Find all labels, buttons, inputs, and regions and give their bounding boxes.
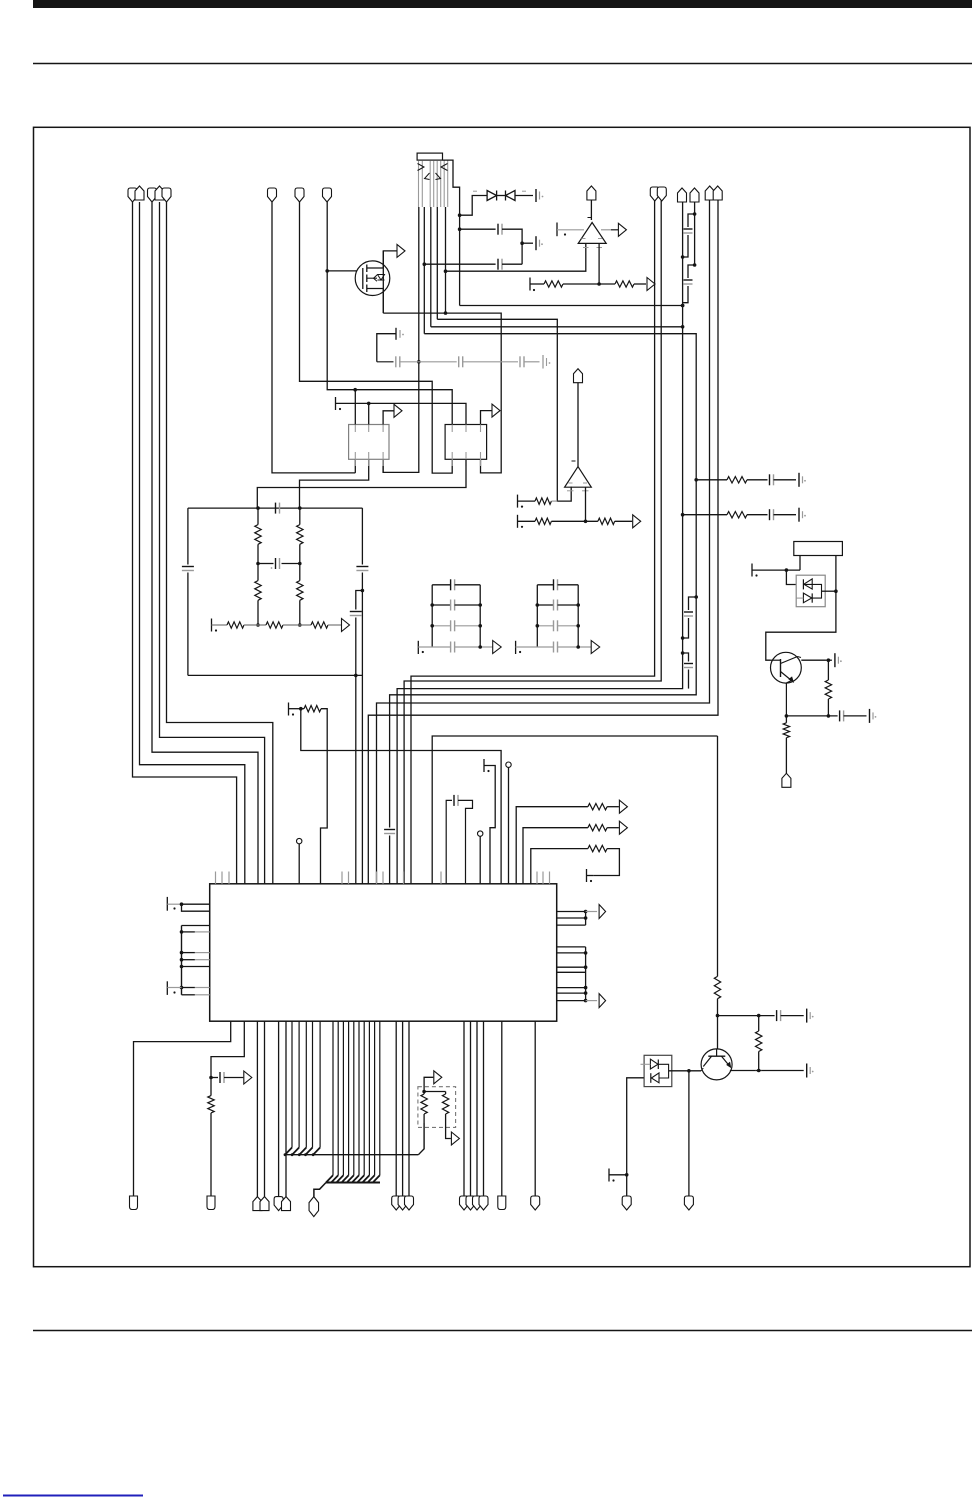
connector J1 pin b — [135, 186, 144, 200]
twin-T right branch with capacitor C10 — [361, 508, 363, 564]
T1 arrow marks — [425, 173, 430, 180]
B1 bottom pin 3 — [382, 459, 384, 472]
wire — [167, 903, 181, 905]
stub row wire to B2 pin2 top — [336, 403, 467, 424]
opto U3 box — [796, 575, 825, 607]
capacitor C7 — [519, 356, 521, 367]
cap row wire — [377, 361, 394, 363]
wire from R10 node down and right — [301, 709, 501, 884]
connector J15 pair — [274, 1197, 283, 1211]
connector J16 — [309, 1197, 319, 1217]
IC U4 — [210, 884, 557, 1021]
capacitor C5 — [395, 356, 397, 367]
U1 input marks — [582, 238, 586, 240]
wire to arrow — [615, 520, 633, 522]
resistor R8 — [266, 622, 283, 628]
U2 inverting wire — [585, 487, 587, 521]
data bus 1 with slant joins — [291, 1021, 293, 1147]
capacitor C19 — [839, 710, 841, 721]
wire pins to connector pair1 — [256, 1021, 258, 1196]
U5 inner bracket — [658, 1064, 668, 1078]
U3 gray lead — [797, 597, 804, 599]
wire to connector J19 — [501, 1021, 503, 1196]
wire — [283, 624, 311, 626]
resistor R13 — [535, 498, 551, 504]
wire — [508, 767, 510, 884]
RC chain row2 resistor R12 — [683, 514, 727, 516]
data bus 2 with slant joins — [332, 1021, 334, 1175]
B1 top pin 3 to arrow — [383, 411, 393, 425]
resistor R25 — [758, 1016, 760, 1031]
bus row3 wire to opamp U2 input — [437, 319, 571, 501]
capacitor CB4 bottom row — [516, 646, 554, 648]
opto U5 box — [644, 1055, 672, 1086]
connector T1 label box — [417, 153, 442, 160]
K1 left pin — [799, 556, 801, 571]
no-connect — [297, 838, 302, 843]
wire — [497, 195, 506, 197]
U5 input wire — [627, 1078, 644, 1196]
wire T1 right jog down — [443, 160, 460, 305]
footer link underline — [3, 1495, 143, 1497]
wire — [298, 844, 300, 884]
bus1 riser to dashed block — [418, 1123, 424, 1155]
twin-T top wire — [188, 507, 363, 509]
connector J21 — [684, 1196, 693, 1210]
cap jog C14 — [688, 265, 695, 278]
capacitor CB1 — [537, 584, 553, 586]
U1 inverting input wire — [598, 243, 600, 284]
ground — [806, 1009, 808, 1023]
bus row2 wire mosfet source to filter box B2 pin3 — [383, 313, 501, 473]
junction — [325, 269, 329, 273]
wire from J1e — [167, 202, 273, 884]
no-connect — [478, 831, 483, 836]
Q1 body diode — [378, 275, 385, 281]
connector J6 double — [650, 187, 659, 201]
wire row to R20 — [531, 849, 588, 884]
T1 hook mark left — [418, 164, 425, 171]
wire — [718, 1015, 775, 1017]
wire — [563, 283, 615, 285]
U3 inner bracket — [804, 584, 822, 598]
connector J3 — [295, 188, 304, 202]
wire down to IC from twin-T — [355, 675, 357, 884]
junction — [458, 213, 462, 217]
supply stub — [608, 1169, 610, 1182]
wire row C3 — [424, 263, 495, 265]
capacitor C8 — [275, 503, 277, 514]
resistor R16 — [827, 660, 829, 680]
wire — [786, 715, 837, 717]
wire to connector — [210, 1113, 212, 1196]
U5 output wire to Q3 — [669, 1070, 702, 1072]
wire IC pin to left connector — [134, 1021, 231, 1196]
wire — [400, 361, 457, 363]
supply stub left 2 — [166, 981, 168, 995]
op-amp U2 — [565, 467, 592, 488]
capacitor C3 — [497, 259, 499, 270]
supply stub — [586, 869, 588, 882]
resistor R1 — [544, 281, 563, 287]
capacitor CA3 — [432, 625, 450, 627]
wire J6a down — [411, 200, 655, 884]
bottom rail stub CB — [515, 641, 517, 654]
wire to opto U3 — [786, 570, 796, 584]
wire to arrow — [634, 283, 646, 285]
wire T1-5 down to bus row2 — [445, 207, 447, 313]
connector J1 pin a — [128, 188, 137, 202]
filter box B2 — [445, 425, 487, 460]
wire stub to K1 pin — [752, 569, 800, 571]
arrow out CB — [591, 641, 600, 654]
twin-T branch B resistor R6 — [299, 564, 301, 581]
T1 pin shield 3 — [436, 161, 438, 208]
capacitor C22 — [776, 1010, 778, 1021]
wire to arrow — [607, 827, 619, 829]
wire to arrow above — [424, 1077, 433, 1091]
supply stub — [288, 703, 290, 716]
resistor R21 — [208, 1096, 214, 1113]
wire below to arrow — [446, 1114, 451, 1139]
supply stub — [483, 759, 485, 772]
K1 right pin wire — [766, 556, 836, 661]
U5 diode 2 — [651, 1073, 659, 1083]
wire J8 down — [694, 202, 696, 265]
wire from J3 to filter box B2 pin1 bottom — [300, 202, 453, 473]
wire stub jog to IC — [484, 766, 495, 885]
cap ladder block CB rails — [536, 585, 538, 647]
wire — [479, 836, 481, 884]
connector J19 — [498, 1196, 506, 1210]
capacitor C17 — [769, 474, 771, 485]
cap jog C16 — [683, 653, 689, 662]
twin-T mid capacitor C12 — [258, 563, 274, 565]
wire to opamp U1 input — [446, 243, 586, 271]
Q1 right chord wire — [382, 251, 384, 313]
resistor R9 — [311, 622, 328, 628]
Q1 drain wire to arrow — [383, 251, 396, 268]
transistor Q2 — [771, 652, 802, 683]
capacitor C21 — [211, 1077, 218, 1079]
resistor R15 — [598, 518, 615, 524]
diode D1 — [487, 191, 497, 201]
supply stub — [517, 515, 519, 528]
pins — [182, 925, 210, 927]
capacitor C6 — [458, 356, 460, 367]
U5 gray lead — [641, 1063, 651, 1065]
connector J1 pin d — [155, 186, 164, 200]
T1 pin shield 4 — [443, 161, 445, 208]
U3 output wire — [822, 590, 836, 592]
supply stub row y403.4 — [335, 397, 337, 410]
wire — [524, 361, 540, 363]
ground — [869, 709, 871, 723]
connector J1 pin c — [148, 188, 157, 202]
IC right pins group1 — [557, 911, 586, 913]
arrow out CA — [493, 641, 502, 654]
U2 label tick — [572, 460, 576, 462]
wire J6b down — [404, 200, 661, 884]
capacitor CB2 — [537, 604, 553, 606]
wire from J4 to filter box B2 pin1 top — [327, 202, 452, 425]
B2 box gray pin stubs — [451, 425, 453, 433]
wire riser resistor R24 — [717, 736, 719, 976]
wire T1-4 down to bus row3 — [436, 207, 438, 319]
wire from J1d — [160, 202, 265, 884]
connector J18 quad — [460, 1196, 469, 1210]
mosfet Q1 — [355, 261, 390, 296]
Q2 emitter wire — [786, 681, 791, 716]
wire — [244, 624, 266, 626]
bus row4 wire — [431, 326, 683, 328]
T1 pin shield 2 — [429, 161, 431, 208]
wire trio to connectors — [395, 1021, 397, 1196]
relay K1 label box — [794, 542, 843, 556]
connector J4 — [323, 188, 332, 202]
wire — [389, 836, 391, 885]
op-amp U1 — [578, 223, 606, 244]
wire h736 corner to Q3 branch — [432, 736, 717, 884]
wire J9b down — [368, 200, 718, 884]
wire T1-2 down to bus row5 — [423, 207, 425, 334]
junction — [444, 269, 448, 273]
connector J5 above U1 — [587, 186, 596, 200]
resistor R18 — [588, 804, 607, 810]
RC chain row1 resistor R11 — [696, 479, 727, 481]
B2 top pin 3 to arrow — [481, 411, 492, 425]
supply stub left 1 — [166, 897, 168, 911]
resistor R19 — [588, 825, 607, 831]
wire quad to connectors — [463, 1021, 465, 1196]
mosfet gate wire — [327, 270, 356, 272]
wire to arrow — [328, 624, 341, 626]
resistor R10 — [304, 706, 321, 712]
capacitor C4 polarized — [395, 328, 397, 340]
U3 diode 2 — [803, 593, 811, 603]
wire from J1b — [140, 202, 245, 884]
twin-T bottom wire — [188, 674, 363, 676]
connector J9 double — [705, 186, 714, 200]
no-connect — [506, 762, 511, 767]
capacitor CB3 — [537, 625, 553, 627]
capacitor CA4 bottom row — [418, 646, 450, 648]
dashed block with resistors — [418, 1087, 456, 1128]
capacitor C23 on riser — [384, 829, 395, 831]
wire row to R18 — [516, 807, 588, 884]
cap jog C13 — [688, 214, 695, 227]
resistor R7 — [227, 622, 244, 628]
schematic frame — [34, 127, 971, 1266]
capacitor C20 bracket — [446, 800, 452, 884]
twin-T branch A resistor R4 — [257, 564, 259, 581]
connector J22 — [622, 1196, 631, 1210]
left pin bracket — [181, 926, 183, 995]
U2 input marks — [569, 482, 573, 484]
U1 minus label — [588, 217, 592, 219]
supply stub — [751, 564, 753, 577]
resistor R22 — [423, 1092, 425, 1095]
wire — [463, 361, 518, 363]
ground — [806, 1064, 808, 1078]
B2 bottom pin 2 to twin-T branch A — [257, 459, 466, 507]
rail bar — [542, 355, 544, 369]
wire — [530, 283, 544, 285]
resistor R14 — [535, 518, 551, 524]
B1 bottom pin 1 — [354, 459, 356, 473]
connector J7 — [678, 188, 687, 202]
Q3 emitter wire — [730, 1070, 756, 1072]
header rule — [33, 63, 972, 65]
page header black bar — [33, 0, 972, 8]
Q2 collector wire — [798, 657, 802, 658]
U1 right lead to arrow — [601, 229, 611, 231]
ground — [522, 242, 533, 244]
wire — [502, 263, 522, 265]
resistor R2 — [615, 281, 634, 287]
connector J20 — [531, 1196, 540, 1210]
wire IC pin down with jog and cap tap — [211, 1021, 244, 1095]
junction — [423, 262, 427, 266]
Q1 source wire to bus row2 — [382, 289, 384, 314]
U5 diode 1 — [650, 1059, 658, 1069]
wire loop to stub — [593, 849, 619, 876]
cap ladder block CA rails — [431, 585, 433, 647]
bus row1 wire — [460, 305, 683, 307]
wire to arrow — [607, 806, 619, 808]
capacitor CA2 — [432, 604, 450, 606]
filter box B1 — [349, 425, 389, 460]
right branch jog with capacitor C11 — [356, 591, 363, 610]
ground — [834, 653, 836, 667]
connector J11 — [782, 773, 791, 787]
connector J14 pair — [253, 1197, 262, 1211]
wire C2 to corner — [502, 229, 522, 264]
wire to connector J21 — [688, 1071, 690, 1196]
T1 pin shield 1 — [418, 161, 420, 208]
junction — [694, 478, 698, 482]
diode D2 — [506, 191, 516, 201]
resistor R17 — [785, 716, 787, 723]
footer rule — [33, 1330, 972, 1332]
wire — [551, 520, 598, 522]
cap jog C15 — [689, 597, 697, 610]
IC right pins group2 — [557, 946, 586, 948]
twin-T left branch with capacitor C9 — [187, 508, 189, 564]
capacitor C2 — [497, 224, 499, 235]
plus label — [271, 567, 273, 569]
B1 top pin 1 — [354, 390, 356, 425]
wire T1-1 down to filter box B1 pin3 — [383, 207, 419, 472]
ground — [798, 508, 800, 522]
capacitor C1 — [535, 189, 537, 202]
junction — [520, 241, 524, 245]
connector J8 — [690, 188, 699, 202]
wire row to R19 — [523, 828, 588, 884]
connector J1 pin e — [162, 188, 171, 202]
junction — [417, 360, 421, 364]
wire to connector J20 — [534, 1021, 536, 1196]
ground — [798, 473, 800, 487]
wire pins to connector pair2 — [278, 1021, 280, 1196]
connector J17 trio — [392, 1196, 401, 1210]
wire R10 down to IC — [321, 709, 328, 884]
bus2 drop to connector J16 — [314, 1183, 326, 1197]
Q3 base wire — [701, 1068, 703, 1071]
resistor R20 — [588, 845, 607, 851]
wire J5 to U1 output — [590, 200, 592, 220]
transistor Q3 — [701, 1049, 732, 1080]
connector J12 — [130, 1196, 138, 1210]
connector J10 — [574, 369, 583, 383]
IC top pin stubs — [215, 872, 217, 884]
wire from J1a — [133, 202, 237, 884]
connector J13 — [207, 1196, 215, 1210]
wire row to C2 — [460, 228, 496, 230]
wire J10 to U2 output — [577, 383, 579, 467]
connector J2 — [268, 188, 277, 202]
U1 left stub input — [556, 223, 558, 237]
wire — [182, 904, 210, 911]
supply stub — [529, 278, 531, 291]
resistor R23 — [445, 1092, 447, 1095]
bus row5 wire — [390, 334, 697, 828]
B1 top pin 2 to stub row — [368, 403, 370, 424]
wire to diodes — [460, 196, 488, 216]
twin-T branch B resistor R5 — [299, 508, 301, 524]
label tick — [473, 190, 477, 192]
wire from J2 to filter box B1 pin1 bottom — [272, 202, 355, 473]
wire T1-3 down to bus row4 — [430, 207, 432, 327]
wire J7 down — [397, 202, 682, 884]
twin-T branch A resistor R3 — [257, 508, 259, 524]
U3 diode 1 — [804, 579, 812, 589]
twin-T bottom row ground stub — [211, 619, 213, 632]
T1 hook mark right — [441, 164, 448, 171]
wire J9a down — [377, 200, 710, 884]
bottom rail stub CA — [417, 641, 419, 654]
B1 bottom pin 2 to twin-T branch B — [300, 459, 369, 507]
wire to connector — [785, 738, 787, 774]
wire top link — [424, 1091, 446, 1093]
wire from J1c — [152, 202, 258, 884]
capacitor C18 — [769, 509, 771, 520]
wire C4 bracket — [377, 334, 396, 362]
capacitor CA1 — [432, 584, 450, 586]
supply stub — [517, 495, 519, 508]
